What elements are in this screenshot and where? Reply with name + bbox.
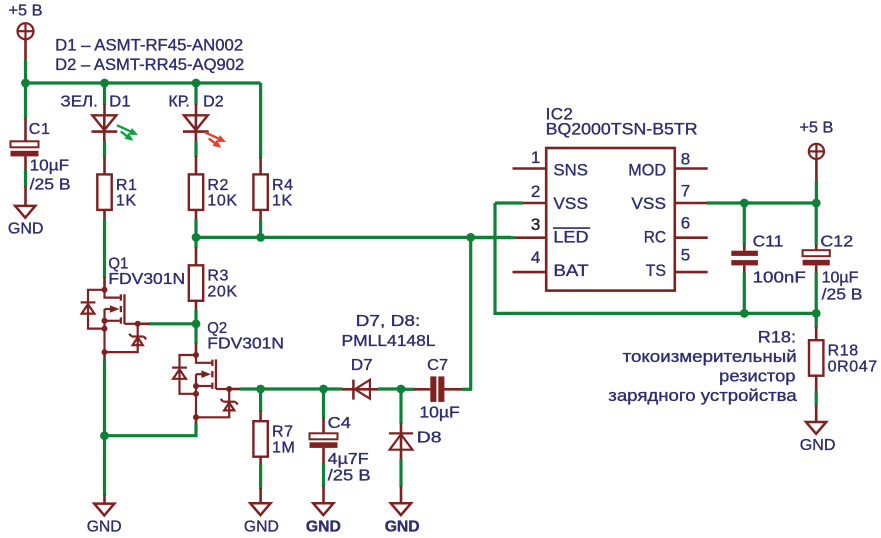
capacitor C11 xyxy=(731,251,758,266)
svg-text:TS: TS xyxy=(646,261,666,280)
label GND R18 xyxy=(800,437,836,454)
resistor R4 xyxy=(253,174,267,210)
svg-text:5: 5 xyxy=(681,246,690,265)
pin name BAT xyxy=(553,261,588,280)
wire gate bus xyxy=(240,387,343,390)
wire R4 to node xyxy=(259,210,262,238)
label R7 values xyxy=(272,424,295,457)
ground R7 xyxy=(250,503,270,515)
node D7/D8/C7 xyxy=(397,385,406,394)
power +5V symbol (right) xyxy=(809,144,824,159)
label GND D8 xyxy=(385,518,420,535)
svg-text:C1: C1 xyxy=(29,121,51,138)
wire R18 to GND xyxy=(815,376,818,422)
wire pin7 bus xyxy=(707,201,817,204)
svg-text:GND: GND xyxy=(800,437,836,454)
wire D2 to R2 xyxy=(194,142,197,175)
diode D7 xyxy=(342,380,379,400)
label C12 xyxy=(820,233,853,250)
label D1 xyxy=(109,93,131,110)
ground C1 xyxy=(15,206,35,218)
pin number 2 xyxy=(531,182,540,201)
pin name RC xyxy=(644,228,666,247)
label D2 part note xyxy=(55,56,244,74)
wire top bus xyxy=(26,81,261,84)
label D7 xyxy=(351,357,373,374)
wire to C11 xyxy=(743,203,746,251)
wire R7 to GND xyxy=(259,457,262,504)
wire node to R18 xyxy=(815,313,818,340)
resistor R3 xyxy=(189,265,203,301)
svg-text:4: 4 xyxy=(531,248,540,267)
wire D8 to GND xyxy=(399,459,402,503)
label D7 D8 note xyxy=(342,313,436,350)
svg-text:10µF: 10µF xyxy=(30,157,70,174)
wire bus to C1 xyxy=(24,83,27,141)
node bottom/C11 xyxy=(740,309,749,318)
svg-text:+5 В: +5 В xyxy=(799,119,833,136)
capacitor C7 xyxy=(414,376,463,402)
svg-text:R4: R4 xyxy=(272,177,294,194)
svg-text:D7: D7 xyxy=(351,357,373,374)
wire D1 to R1 xyxy=(103,141,106,174)
label C11 value xyxy=(753,270,806,287)
svg-text:MOD: MOD xyxy=(628,161,666,180)
wire Q1 source down xyxy=(103,352,106,504)
pin number 3 xyxy=(531,215,540,234)
svg-text:8: 8 xyxy=(681,150,690,169)
pin name VSS right xyxy=(631,194,666,213)
label C1 xyxy=(29,121,51,138)
transistor Q2 xyxy=(172,352,238,420)
resistor R18 xyxy=(809,340,823,376)
svg-text:C4: C4 xyxy=(328,415,351,432)
svg-text:D8: D8 xyxy=(417,429,442,446)
label Q2 xyxy=(207,320,284,353)
svg-text:1K: 1K xyxy=(272,193,293,210)
resistor R1 xyxy=(97,174,111,210)
ground Q1 xyxy=(94,504,114,516)
node R3/Q2 drain xyxy=(192,319,201,328)
svg-text:GND: GND xyxy=(87,518,122,535)
svg-text:Q2: Q2 xyxy=(207,320,227,337)
wire bus to R4 xyxy=(259,83,262,174)
node C4 xyxy=(319,385,328,394)
svg-text:20K: 20K xyxy=(207,284,237,301)
capacitor C4 xyxy=(310,433,338,448)
svg-text:R18:: R18: xyxy=(758,329,796,347)
pin name LED xyxy=(553,228,590,247)
svg-text:2: 2 xyxy=(531,182,540,201)
wire R1 to Q1 drain xyxy=(103,210,106,290)
wire node to R7 xyxy=(259,389,262,421)
wire +5V left to bus xyxy=(24,39,27,83)
svg-text:6: 6 xyxy=(681,214,690,233)
node bus/D2 xyxy=(192,79,201,88)
label GND Q1 xyxy=(87,518,122,535)
label D2 xyxy=(203,93,224,110)
label GND C1 xyxy=(8,220,44,237)
pin name SNS xyxy=(553,161,588,180)
svg-text:GND: GND xyxy=(385,518,420,535)
wire node to Q2 drain xyxy=(194,324,197,355)
svg-text:/25 В: /25 В xyxy=(30,177,71,194)
svg-text:R7: R7 xyxy=(272,424,294,441)
svg-text:BAT: BAT xyxy=(553,261,588,280)
pin name VSS left xyxy=(553,194,588,213)
svg-text:ЗЕЛ.: ЗЕЛ. xyxy=(61,93,98,110)
node pin7/C12 xyxy=(812,199,821,208)
svg-text:+5 В: +5 В xyxy=(9,3,43,20)
label IC2 part xyxy=(546,119,698,138)
label C7 value xyxy=(419,405,460,422)
svg-text:R1: R1 xyxy=(116,177,138,194)
svg-text:PMLL4148L: PMLL4148L xyxy=(342,333,436,350)
pin number 6 xyxy=(681,214,690,233)
svg-text:4µ7F: 4µ7F xyxy=(328,451,369,468)
wire R3 to node xyxy=(195,301,198,324)
wire node to R3 xyxy=(194,237,197,265)
ground C4 xyxy=(313,503,333,515)
label R3 values xyxy=(207,268,237,301)
diode D8 xyxy=(389,423,413,460)
svg-text:зарядного устройства: зарядного устройства xyxy=(608,387,797,405)
label red xyxy=(168,93,189,110)
pin 1 SNS xyxy=(513,167,547,170)
label R2 values xyxy=(207,177,237,210)
node mid/R3 xyxy=(192,233,201,242)
label C1 value xyxy=(30,157,71,193)
ground D8 xyxy=(391,503,411,515)
label GND R7 xyxy=(244,518,279,535)
node bottom/C12/R18 xyxy=(812,309,821,318)
label IC2 xyxy=(546,104,574,123)
label C7 xyxy=(427,357,448,374)
svg-text:токоизмерительный: токоизмерительный xyxy=(623,348,797,366)
pin 8 MOD xyxy=(676,167,708,170)
IC U1 box xyxy=(546,148,675,291)
wire bus to D1 xyxy=(103,83,106,115)
LED D2 arrows xyxy=(205,132,226,148)
svg-text:FDV301N: FDV301N xyxy=(108,271,185,288)
ground R18 xyxy=(806,422,826,434)
svg-text:7: 7 xyxy=(681,182,690,201)
svg-text:GND: GND xyxy=(306,518,341,535)
wire to C12 xyxy=(815,203,818,250)
node bus/D1 xyxy=(100,79,109,88)
svg-text:D2: D2 xyxy=(203,93,224,110)
wire bus to D2 xyxy=(194,83,197,115)
resistor R2 xyxy=(189,174,203,210)
label green xyxy=(61,93,98,110)
capacitor C12 xyxy=(803,250,830,265)
pin 5 TS xyxy=(676,271,708,274)
svg-text:10µF: 10µF xyxy=(822,270,859,287)
svg-text:резистор: резистор xyxy=(719,367,795,385)
label R4 values xyxy=(272,177,294,210)
svg-text:RC: RC xyxy=(644,228,666,247)
wire +5V right down xyxy=(815,159,818,203)
wire pin3 link xyxy=(471,236,515,239)
svg-text:C7: C7 xyxy=(427,357,448,374)
pin number 8 xyxy=(681,150,690,169)
pin number 1 xyxy=(531,148,540,167)
svg-text:/25 В: /25 В xyxy=(328,468,371,485)
label D1 part note xyxy=(55,36,243,54)
pin 2 VSS xyxy=(522,202,546,205)
wire C11 to bus xyxy=(743,265,746,313)
label D8 xyxy=(417,429,442,446)
svg-text:/25 В: /25 В xyxy=(822,287,863,304)
wire C4 to GND xyxy=(322,448,325,503)
label R18 values xyxy=(828,343,878,376)
wire D7 anode to node xyxy=(378,387,401,390)
svg-text:VSS: VSS xyxy=(631,194,666,213)
node pin7/C11 xyxy=(740,199,749,208)
svg-text:0R047: 0R047 xyxy=(828,358,878,375)
wire C12 to bus xyxy=(815,265,818,313)
wire node to C7 xyxy=(401,388,415,391)
label Q1 xyxy=(108,255,185,288)
svg-text:R2: R2 xyxy=(207,177,229,194)
wire C7 to riser xyxy=(462,237,471,390)
label R18 note xyxy=(608,329,797,405)
svg-text:GND: GND xyxy=(244,518,279,535)
svg-text:C11: C11 xyxy=(753,233,784,250)
transistor Q1 xyxy=(81,287,147,355)
svg-text:C12: C12 xyxy=(820,233,853,250)
label R1 values xyxy=(116,177,138,210)
svg-text:КР.: КР. xyxy=(168,93,189,110)
LED D2 xyxy=(183,115,209,143)
svg-text:100nF: 100nF xyxy=(753,270,806,287)
node bus/C1 xyxy=(21,79,30,88)
LED D1 xyxy=(92,115,118,142)
svg-text:10µF: 10µF xyxy=(419,405,460,422)
pin number 5 xyxy=(681,246,690,265)
svg-text:BQ2000TSN-B5TR: BQ2000TSN-B5TR xyxy=(546,119,698,138)
wire Q2 source to Q1 column xyxy=(105,417,197,435)
svg-text:D1: D1 xyxy=(109,93,131,110)
wire pin2 to bottom bus xyxy=(495,203,816,313)
label +5 V (left) xyxy=(9,3,43,20)
capacitor C1 xyxy=(11,141,39,156)
pin number 7 xyxy=(681,182,690,201)
wire Q1 gate to R3 node xyxy=(138,322,196,325)
wire Q2 gate stub xyxy=(229,388,240,391)
wire C1 to GND xyxy=(24,156,27,206)
pin 3 LED xyxy=(514,236,546,239)
pin name MOD xyxy=(628,161,666,180)
power +5V symbol (left) xyxy=(18,23,34,39)
svg-text:R18: R18 xyxy=(828,343,859,360)
LED D1 arrows xyxy=(117,125,138,141)
svg-text:R3: R3 xyxy=(207,268,229,285)
node mid/C7 riser xyxy=(466,233,475,242)
node R7 xyxy=(256,385,265,394)
svg-text:LED: LED xyxy=(553,228,588,247)
label C4 xyxy=(328,415,351,432)
wire mid bus to IC pin3 xyxy=(196,236,511,239)
svg-text:1K: 1K xyxy=(116,193,137,210)
label C4 value xyxy=(328,451,371,484)
label C12 value xyxy=(822,270,863,304)
wire node to D8 xyxy=(399,389,402,424)
pin 7 VSS xyxy=(676,202,708,205)
svg-text:1M: 1M xyxy=(272,439,295,456)
svg-text:D1 – ASMT-RF45-AN002: D1 – ASMT-RF45-AN002 xyxy=(55,36,243,54)
node mid/R4 xyxy=(256,233,265,242)
svg-text:10K: 10K xyxy=(207,193,237,210)
svg-text:1: 1 xyxy=(531,148,540,167)
svg-text:Q1: Q1 xyxy=(108,255,128,272)
wire R2 to node xyxy=(195,210,198,238)
svg-text:SNS: SNS xyxy=(553,161,588,180)
node Q1 source/Q2 source xyxy=(100,431,109,440)
label +5 V (right) xyxy=(799,119,833,136)
svg-text:D2 – ASMT-RR45-AQ902: D2 – ASMT-RR45-AQ902 xyxy=(55,56,244,74)
label C11 xyxy=(753,233,784,250)
pin number 4 xyxy=(531,248,540,267)
svg-text:3: 3 xyxy=(531,215,540,234)
pin 4 BAT xyxy=(513,271,547,274)
svg-text:GND: GND xyxy=(8,220,44,237)
svg-text:VSS: VSS xyxy=(553,194,588,213)
resistor R7 xyxy=(253,421,267,457)
pin name TS xyxy=(646,261,666,280)
wire node to C4 xyxy=(322,389,325,433)
svg-text:FDV301N: FDV301N xyxy=(207,336,284,353)
pin 6 RC xyxy=(676,236,708,239)
svg-text:D7, D8:: D7, D8: xyxy=(356,313,421,330)
label GND C4 xyxy=(306,518,341,535)
